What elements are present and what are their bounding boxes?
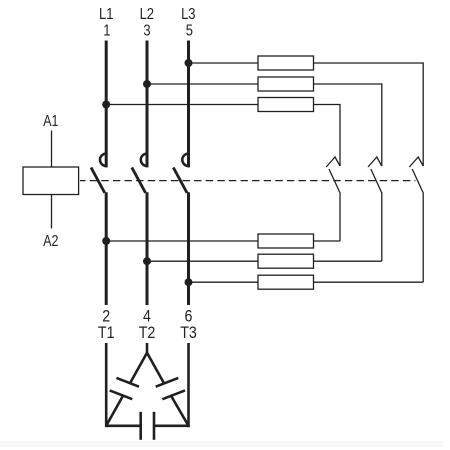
wire L3 junction to resistor R1 — [189, 62, 259, 64]
aux contact 2 blade — [371, 169, 382, 194]
svg-text:L2: L2 — [140, 6, 155, 23]
svg-text:T3: T3 — [180, 324, 197, 342]
svg-text:T1: T1 — [98, 324, 115, 342]
delta right side lower segment — [171, 395, 189, 426]
svg-text:4: 4 — [143, 307, 151, 325]
wire L2 junction to resistor R2 — [147, 83, 258, 85]
svg-text:6: 6 — [185, 307, 193, 325]
delta left side upper segment — [130, 353, 147, 384]
delta right side upper segment — [147, 353, 164, 384]
main contact 2 fixed hook — [141, 154, 147, 166]
wire R1 to aux contact 3 — [314, 63, 424, 166]
main pole T1 lower conductor — [105, 192, 108, 305]
main contact 3 fixed hook — [182, 154, 188, 166]
node T2 junction dot — [143, 257, 151, 265]
svg-text:L1: L1 — [99, 6, 114, 23]
aux contact 2 fixed hook — [368, 157, 382, 167]
svg-text:L3: L3 — [181, 6, 196, 23]
main pole L3 upper conductor — [187, 41, 190, 168]
delta bottom side left segment — [105, 424, 141, 427]
svg-text:3: 3 — [143, 23, 150, 40]
node L1 junction dot — [102, 101, 110, 109]
svg-text:5: 5 — [186, 23, 193, 40]
aux contact 3 blade — [412, 169, 423, 194]
wire T3 junction to resistor R6 — [189, 281, 259, 283]
resistor R2 — [258, 77, 314, 91]
main pole T3 lower conductor — [187, 192, 190, 305]
main pole L2 upper conductor — [146, 41, 149, 168]
capacitor C1 plate upper — [116, 378, 139, 387]
capacitor C1 plate lower — [110, 390, 133, 399]
wire T2 junction to resistor R5 — [147, 260, 258, 262]
main contact 1 blade — [91, 167, 105, 192]
resistor R4 — [258, 234, 314, 248]
aux contact 3 fixed hook — [409, 157, 423, 167]
aux contact 2 lower wire — [381, 194, 383, 262]
delta bottom side right segment — [154, 424, 190, 427]
resistor R6 — [258, 275, 314, 289]
aux contact 1 lower wire — [339, 194, 341, 242]
node L2 junction dot — [143, 80, 151, 88]
wire T1 junction to resistor R4 — [106, 240, 258, 242]
aux contact 1 blade — [329, 169, 340, 194]
capacitor C2 plate lower — [162, 390, 185, 399]
capacitor bank lead T2 — [146, 343, 149, 355]
actuation dashed link — [80, 180, 416, 182]
wire R3 to aux contact 1 — [314, 105, 341, 167]
node T3 junction dot — [185, 278, 193, 286]
wire R2 to aux contact 2 — [314, 84, 382, 166]
svg-text:T2: T2 — [139, 324, 156, 342]
aux contact 1 fixed hook — [326, 157, 340, 167]
main pole L1 upper conductor — [105, 41, 108, 168]
wire L1 junction to resistor R3 — [106, 104, 258, 106]
capacitor C2 plate upper — [156, 378, 179, 387]
capacitor bank lead T1 — [105, 343, 108, 427]
coil A1 lead wire — [51, 131, 53, 168]
svg-text:1: 1 — [103, 23, 110, 40]
main contact 1 fixed hook — [100, 154, 106, 166]
resistor R1 — [258, 56, 314, 70]
coil K1 — [23, 167, 79, 195]
main contact 3 blade — [173, 167, 187, 192]
resistor R5 — [258, 254, 314, 268]
coil A2 lead wire — [51, 195, 53, 229]
delta left side lower segment — [106, 395, 123, 426]
svg-text:A1: A1 — [43, 112, 58, 130]
main contact 2 blade — [132, 167, 146, 192]
node T1 junction dot — [102, 237, 110, 245]
node L3 junction dot — [185, 59, 193, 67]
capacitor C3 plate left — [139, 412, 142, 440]
svg-text:2: 2 — [102, 307, 110, 325]
wire R4 to aux contact 1 — [314, 240, 341, 242]
wire R5 to aux contact 2 — [314, 260, 382, 262]
bottom page shading band — [0, 441, 443, 447]
main pole T2 lower conductor — [146, 192, 149, 305]
resistor R3 — [258, 98, 314, 112]
aux contact 3 lower wire — [422, 194, 424, 283]
svg-text:A2: A2 — [43, 232, 58, 250]
capacitor bank lead T3 — [187, 343, 190, 427]
wire R6 to aux contact 3 — [314, 281, 424, 283]
capacitor C3 plate right — [153, 412, 156, 440]
